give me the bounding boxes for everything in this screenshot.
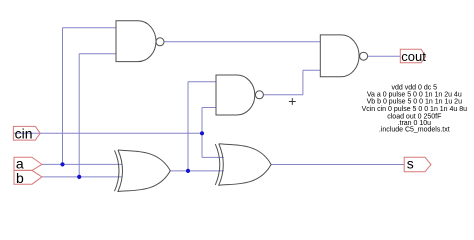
wire xor2 output to s bbox=[272, 164, 405, 166]
wire b to nand1 bottom input bbox=[79, 53, 116, 55]
wire to nand3 bottom input bbox=[303, 69, 321, 71]
wire to nand2 top input bbox=[188, 81, 216, 83]
svg-text:a: a bbox=[16, 155, 24, 171]
wire xor1 output vertical riser bbox=[187, 82, 189, 171]
wire nand2 output vertical bbox=[302, 70, 304, 95]
output pin label s box bbox=[404, 157, 431, 172]
wire a vertical riser bbox=[62, 28, 64, 165]
wire nand3 output to cout bbox=[368, 55, 401, 57]
wire cin to nand2 bottom input bbox=[202, 107, 216, 109]
xor gate X2 input side arc bbox=[215, 144, 220, 185]
junction node on cin wire bbox=[200, 131, 204, 135]
svg-text:cout: cout bbox=[401, 49, 426, 64]
nand gate U1 body bbox=[116, 21, 156, 62]
wire cin vertical riser bbox=[201, 108, 203, 158]
wire a horizontal bbox=[42, 163, 122, 165]
svg-text:Va a 0 pulse 5 0 0 1n 1n 2u 4u: Va a 0 pulse 5 0 0 1n 1n 2u 4u bbox=[367, 91, 462, 98]
spice directives text block bbox=[362, 85, 468, 134]
xor gate X2 body bbox=[219, 144, 271, 186]
svg-text:Vb b 0 pulse 5 0 0 1n 1n 1u 2u: Vb b 0 pulse 5 0 0 1n 1n 1u 2u bbox=[367, 99, 462, 106]
wire a to nand1 top input bbox=[63, 27, 117, 29]
wire b vertical riser bbox=[78, 54, 80, 177]
svg-text:b: b bbox=[16, 170, 24, 186]
nand gate U1 bubble bbox=[156, 38, 164, 46]
wire nand2 output horizontal bbox=[264, 94, 303, 96]
xor gate X1 body bbox=[118, 150, 170, 192]
wire xor1 output bbox=[170, 170, 224, 172]
input pin label cin box bbox=[13, 126, 40, 140]
input pin label b box bbox=[14, 170, 42, 184]
svg-text:cin: cin bbox=[15, 126, 33, 142]
svg-text:s: s bbox=[407, 155, 414, 171]
junction node on a wire bbox=[60, 162, 64, 166]
input pin label a box bbox=[14, 157, 42, 170]
nand gate U3 bubble bbox=[360, 52, 368, 60]
junction node on b wire bbox=[77, 175, 81, 179]
junction node on xor1 output bbox=[186, 169, 190, 173]
svg-text:Vcin cin 0 pulse 5 0 0 1n 1n 4: Vcin cin 0 pulse 5 0 0 1n 1n 4u 8u bbox=[362, 106, 468, 113]
svg-text:.include C5_models.txt: .include C5_models.txt bbox=[379, 127, 450, 134]
wire nand1 output to nand3 top input bbox=[164, 41, 320, 43]
nand gate U2 bubble bbox=[255, 91, 263, 99]
nand gate U3 body bbox=[320, 35, 359, 77]
plus polarity mark bbox=[289, 98, 296, 105]
wire b horizontal bbox=[42, 176, 123, 178]
wire cin horizontal bbox=[14, 132, 202, 134]
nand gate U2 body bbox=[216, 75, 255, 115]
xor gate X1 input side arc bbox=[115, 150, 120, 191]
output pin label cout box bbox=[400, 49, 425, 63]
wire cin to xor2 top input bbox=[202, 156, 224, 158]
